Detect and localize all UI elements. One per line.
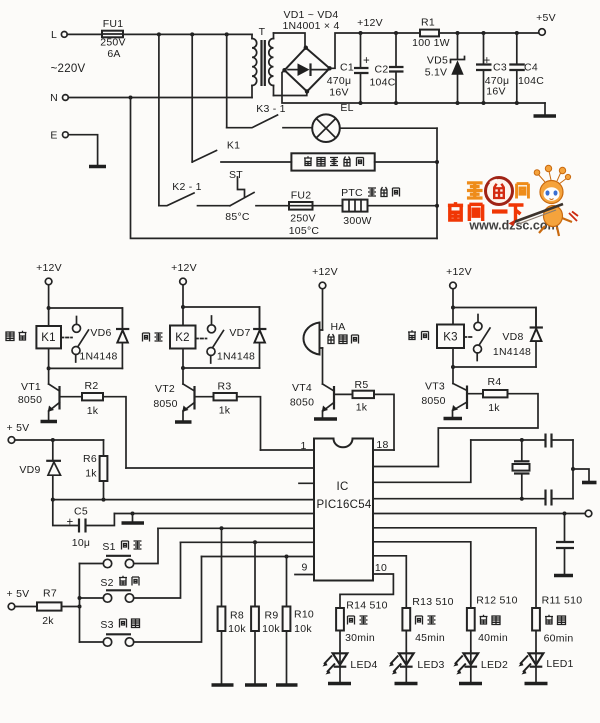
wire 12V to K3 coil — [452, 289, 454, 325]
wire R3 to pin1 — [237, 397, 261, 450]
ground C6 — [554, 574, 573, 578]
svg-text:10μ: 10μ — [72, 537, 90, 549]
wire pin10 to R14 — [340, 574, 393, 608]
svg-text:S2: S2 — [100, 577, 113, 589]
svg-text:C3: C3 — [493, 62, 507, 74]
svg-text:R4: R4 — [488, 376, 502, 388]
wire R2 to pin2 — [103, 397, 126, 468]
svg-text:T: T — [259, 26, 266, 38]
resistor R3 — [196, 396, 214, 398]
LED1 — [529, 653, 544, 664]
svg-text:9: 9 — [301, 562, 307, 574]
svg-text:2k: 2k — [42, 615, 54, 627]
wire R4 to pin17 — [438, 394, 538, 467]
wire pin5 line — [114, 513, 314, 515]
svg-text:250V: 250V — [290, 213, 316, 225]
wire pin16 to osc — [373, 440, 471, 482]
wire pin1 — [261, 449, 315, 451]
wire pin14 Vdd line — [373, 513, 585, 515]
ground LED2 — [459, 682, 482, 686]
resistor R1 — [420, 30, 439, 37]
wire pin17 — [373, 466, 438, 468]
resistor R4 — [469, 393, 484, 395]
heater PTC — [343, 200, 368, 212]
svg-text:E: E — [50, 130, 57, 142]
wire K1 loop bottom — [48, 348, 50, 384]
terminal N — [63, 95, 69, 101]
svg-text:R1: R1 — [421, 17, 435, 29]
resistor R8 — [221, 528, 223, 606]
LED4 — [333, 653, 348, 664]
fuse FU2 — [289, 202, 313, 210]
node N riser — [129, 96, 133, 100]
wire bridge + to 12V rail — [330, 33, 420, 68]
svg-text:VT2: VT2 — [155, 383, 175, 395]
wire pin8 line — [202, 556, 315, 558]
svg-text:VT4: VT4 — [292, 382, 312, 394]
svg-text:~220V: ~220V — [51, 63, 86, 75]
wire pin13 to R11 — [373, 528, 536, 608]
label disinfect — [6, 331, 27, 341]
svg-text:K3 - 1: K3 - 1 — [256, 103, 286, 115]
svg-text:C2: C2 — [375, 64, 389, 76]
ground VT4 — [314, 417, 337, 421]
svg-text:1k: 1k — [219, 405, 231, 417]
svg-text:1k: 1k — [488, 402, 500, 414]
contact K3 aux — [477, 315, 479, 323]
svg-text:+5V: +5V — [536, 12, 556, 24]
svg-text:VD7: VD7 — [229, 327, 250, 339]
capacitor osc C lower — [520, 497, 524, 501]
node L-K3 riser — [225, 32, 229, 36]
resistor R9 — [254, 542, 256, 606]
svg-text:105°C: 105°C — [289, 225, 320, 237]
capacitor C6 decoupling — [563, 512, 567, 516]
mascot balls — [534, 165, 570, 184]
svg-text:K1: K1 — [41, 332, 56, 344]
svg-text:R11 510: R11 510 — [542, 595, 583, 607]
svg-text:10k: 10k — [294, 623, 312, 635]
svg-text:FU2: FU2 — [291, 190, 312, 202]
svg-text:VD6: VD6 — [90, 327, 111, 339]
wire secondary top to bridge — [274, 33, 306, 47]
capacitor osc C upper — [546, 434, 552, 448]
svg-text:HA: HA — [330, 321, 345, 333]
svg-text:250V: 250V — [100, 37, 126, 49]
ground LED1 — [525, 682, 548, 686]
wire pin12 to R12 — [373, 542, 471, 608]
svg-text:300W: 300W — [343, 215, 371, 227]
pin 3 stub — [299, 482, 314, 484]
LED3 — [399, 653, 414, 664]
svg-text:+ 5V: + 5V — [7, 422, 30, 434]
relay coil K1 — [36, 326, 61, 348]
wire pin4 line — [53, 499, 314, 501]
capacitor C3 — [482, 31, 486, 35]
svg-text:10k: 10k — [228, 623, 246, 635]
ground R10 — [276, 683, 298, 687]
relay coil K3 — [437, 325, 464, 349]
riser to K1 — [191, 34, 193, 162]
wire pin6 line — [158, 527, 314, 529]
svg-text:30min: 30min — [345, 632, 375, 644]
osc right bus — [572, 440, 574, 499]
svg-text:8050: 8050 — [290, 397, 314, 409]
wire to buzzer — [322, 289, 324, 330]
svg-text:+: + — [363, 55, 370, 67]
svg-text:1N4148: 1N4148 — [79, 351, 117, 363]
svg-text:1k: 1k — [85, 468, 97, 480]
svg-text:IC: IC — [337, 481, 349, 493]
wire L to FU1 — [67, 33, 102, 35]
terminal +5V right — [585, 510, 592, 517]
svg-text:16V: 16V — [329, 87, 348, 99]
box ozone generator — [291, 153, 374, 170]
svg-text:R9: R9 — [265, 610, 279, 622]
svg-text:K2: K2 — [175, 332, 190, 344]
contact K1 aux — [76, 317, 78, 325]
svg-text:R2: R2 — [85, 380, 99, 392]
mascot body — [544, 206, 563, 227]
wire E to ground — [68, 135, 97, 165]
svg-text:6A: 6A — [107, 48, 120, 60]
svg-text:VT1: VT1 — [21, 381, 41, 393]
svg-text:+12V: +12V — [357, 17, 383, 29]
contact K2 aux — [211, 316, 213, 325]
svg-text:LED2: LED2 — [481, 659, 508, 671]
LED2 — [464, 653, 479, 664]
wire buzzer to VT4 — [322, 348, 324, 384]
svg-text:+12V: +12V — [446, 266, 472, 278]
resistor R2 — [61, 396, 82, 398]
resistor R13 — [402, 608, 410, 631]
wire pin18 — [373, 449, 394, 451]
svg-text:R6: R6 — [83, 453, 97, 465]
label lighting — [408, 330, 429, 340]
svg-text:+12V: +12V — [36, 262, 62, 274]
svg-text:R8: R8 — [230, 610, 244, 622]
switch bus vertical — [79, 564, 81, 643]
svg-text:8050: 8050 — [421, 395, 445, 407]
fuse FU1 — [102, 31, 123, 38]
svg-text:5.1V: 5.1V — [425, 67, 448, 79]
svg-text:FU1: FU1 — [103, 18, 124, 30]
svg-text:LED4: LED4 — [350, 659, 377, 671]
svg-text:1N4001 × 4: 1N4001 × 4 — [282, 20, 339, 32]
wire pin11 to R13 — [373, 556, 406, 608]
svg-text:+12V: +12V — [171, 262, 197, 274]
svg-text:1k: 1k — [356, 402, 368, 414]
svg-text:N: N — [50, 92, 58, 104]
svg-text:EL: EL — [340, 102, 353, 114]
terminal +5V — [539, 29, 546, 36]
resistor R5 — [336, 393, 353, 395]
watermark magnifier with char xin — [486, 178, 513, 205]
svg-text:LED3: LED3 — [417, 659, 444, 671]
svg-text:8050: 8050 — [153, 398, 177, 410]
watermark char zhao — [467, 183, 483, 198]
svg-text:C4: C4 — [524, 62, 538, 74]
svg-text:10: 10 — [375, 562, 387, 574]
svg-text:VD8: VD8 — [502, 331, 523, 343]
relay coil K2 — [170, 326, 196, 349]
svg-text:+ 5V: + 5V — [7, 588, 30, 600]
svg-text:+: + — [484, 55, 491, 67]
terminal E — [63, 132, 69, 138]
ground on pin5 line — [131, 512, 135, 516]
svg-text:+: + — [67, 517, 74, 529]
svg-text:1k: 1k — [87, 405, 99, 417]
wire pin2 — [126, 467, 314, 469]
svg-text:PIC16C54: PIC16C54 — [316, 499, 371, 511]
svg-text:S3: S3 — [100, 619, 113, 631]
bottom rail — [131, 98, 438, 239]
terminal L — [61, 32, 67, 38]
ground LED3 — [395, 682, 418, 686]
resistor R12 — [467, 608, 475, 631]
wire pin7 line — [181, 541, 315, 543]
svg-text:8050: 8050 — [18, 394, 42, 406]
capacitor C2 — [394, 31, 398, 35]
ground R8 — [212, 683, 234, 687]
svg-text:VD5: VD5 — [427, 55, 448, 67]
crystal XT — [521, 440, 523, 461]
mascot head — [540, 181, 563, 204]
mascot pen — [514, 204, 563, 222]
svg-text:R12 510: R12 510 — [476, 595, 517, 607]
svg-text:1N4148: 1N4148 — [493, 346, 531, 358]
svg-text:K1: K1 — [227, 140, 240, 152]
wire K3 loop bottom — [452, 348, 454, 384]
ground VT3 — [444, 417, 463, 421]
svg-text:85°C: 85°C — [225, 211, 250, 223]
riser to K3-1 — [226, 34, 228, 127]
ground R9 — [245, 683, 267, 687]
ground E — [89, 165, 106, 169]
wire secondary bottom to bridge — [274, 92, 307, 96]
label dry — [143, 333, 163, 342]
svg-text:C1: C1 — [340, 62, 354, 74]
resistor R14 — [336, 608, 344, 631]
wire K1 loop top — [49, 308, 123, 327]
wire 5V rail — [15, 439, 104, 441]
wire R5 to pin18 — [374, 394, 394, 450]
svg-text:40min: 40min — [478, 632, 508, 644]
svg-text:+12V: +12V — [312, 266, 338, 278]
svg-text:VD9: VD9 — [19, 464, 40, 476]
capacitor C4 — [515, 31, 519, 35]
resistor R11 — [532, 608, 540, 631]
svg-text:S1: S1 — [102, 541, 115, 553]
svg-text:R13 510: R13 510 — [412, 596, 453, 608]
watermark char pian — [517, 184, 529, 199]
svg-text:R7: R7 — [43, 588, 57, 600]
zener VD5 — [456, 31, 460, 35]
resistor R10 — [286, 557, 288, 607]
svg-text:K2 - 1: K2 - 1 — [172, 181, 202, 193]
buzzer HA — [303, 323, 319, 355]
riser to K2-1 — [158, 34, 160, 205]
svg-text:104C: 104C — [369, 77, 395, 89]
svg-text:K3: K3 — [443, 332, 458, 344]
svg-text:R3: R3 — [218, 381, 232, 393]
wire L rail — [123, 33, 252, 35]
watermark weikuyixia red — [448, 202, 483, 221]
svg-text:45min: 45min — [415, 632, 445, 644]
svg-text:R14 510: R14 510 — [346, 600, 387, 612]
svg-text:100 1W: 100 1W — [412, 37, 450, 49]
node L-K2 riser — [157, 32, 161, 36]
wire K3 loop top — [453, 308, 536, 328]
ground LED4 — [328, 682, 351, 686]
svg-text:ST: ST — [229, 169, 243, 181]
wire 12V to K2 coil — [182, 285, 184, 326]
wire 12V to K1 coil — [48, 285, 50, 326]
ground VT2 — [175, 420, 192, 424]
wire N rail — [68, 97, 252, 99]
sections injected below — [50, 9, 556, 238]
svg-text:10k: 10k — [262, 623, 280, 635]
svg-text:VT3: VT3 — [425, 381, 445, 393]
ground osc — [573, 469, 589, 481]
svg-text:PTC: PTC — [341, 187, 363, 199]
svg-text:470μ: 470μ — [327, 75, 352, 87]
svg-text:1N4148: 1N4148 — [217, 351, 255, 363]
svg-text:C5: C5 — [74, 506, 88, 518]
wire K2 loop bottom — [182, 349, 184, 385]
node L-K1 riser — [190, 32, 194, 36]
svg-text:16V: 16V — [486, 86, 505, 98]
crystal osc upper line — [471, 439, 546, 441]
wire bridge - to gnd rail — [282, 70, 545, 103]
svg-text:60min: 60min — [544, 633, 574, 645]
op-amp/MCU U1 PIC16C54 — [314, 439, 373, 581]
capacitor C1 — [359, 31, 363, 35]
bus right vertical — [436, 128, 438, 238]
svg-text:LED1: LED1 — [546, 658, 573, 670]
svg-text:R10: R10 — [294, 609, 314, 621]
wire pin15 osc line — [373, 498, 545, 500]
svg-text:R5: R5 — [355, 379, 369, 391]
ground VT1 — [41, 420, 58, 424]
wire K2 loop top — [183, 307, 260, 327]
ground main — [544, 103, 546, 114]
svg-text:104C: 104C — [518, 75, 544, 87]
pin 9 stub — [295, 574, 314, 576]
svg-text:L: L — [51, 29, 57, 41]
